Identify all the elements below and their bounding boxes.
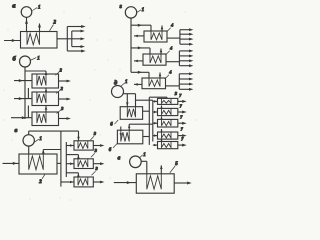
- row3 coil: [37, 112, 46, 123]
- arrow down stage B coil feed: [120, 133, 123, 137]
- label 2 with leader: [42, 175, 45, 179]
- stage B coil feed stub: [120, 127, 122, 131]
- cold water inlet wire: [4, 40, 21, 42]
- arrow up stage1 return: [77, 135, 80, 139]
- svg-text:1: 1: [143, 153, 146, 158]
- stage A shell outlet wire: [143, 110, 150, 112]
- outlet wire to manifold: [166, 85, 180, 87]
- arrow right inlet: [127, 181, 131, 184]
- manifold prong arrow: [179, 73, 189, 75]
- coil outlet wire up: [42, 150, 44, 155]
- riser V2: [65, 142, 67, 177]
- label 1 with leader: [121, 83, 125, 87]
- label 2 row1 leader: [56, 72, 60, 76]
- label 5 with leader: [170, 166, 175, 173]
- top feed wire to consumer 1: [149, 96, 167, 98]
- svg-text:г: г: [120, 3, 123, 10]
- arrow right row2 inlet: [19, 97, 23, 100]
- label 3a leader: [90, 136, 94, 140]
- cold inlet wire: [3, 162, 20, 164]
- return header wire: [29, 130, 79, 132]
- 3c outlet wire arrow: [93, 181, 100, 183]
- manifold prong arrow: [179, 60, 189, 62]
- svg-text:7: 7: [180, 114, 183, 119]
- label 1 with leader: [34, 139, 39, 143]
- inlet wire arrow: [153, 135, 158, 137]
- row3 outlet wire with arrow: [59, 118, 67, 120]
- arrow right row3 inlet: [22, 116, 26, 119]
- heater shell: [142, 78, 166, 89]
- manifold prong arrow: [179, 55, 189, 57]
- consumer heater 7c shell: [158, 119, 178, 127]
- manifold prong arrow: [179, 78, 189, 80]
- feed wire with arrow: [131, 71, 149, 73]
- 3a outlet wire arrow: [93, 145, 100, 147]
- manifold E spine: [71, 31, 73, 47]
- svg-text:2: 2: [53, 21, 57, 26]
- heater 2 coil: [27, 32, 40, 45]
- 3c coil: [78, 177, 88, 185]
- wire pump suction: [26, 17, 28, 31]
- heater 2 shell (first stage): [19, 154, 57, 174]
- svg-text:а: а: [12, 3, 16, 10]
- heater shell: [144, 31, 167, 42]
- outlet wire arrow: [178, 100, 183, 102]
- coil return arrow up: [161, 139, 163, 142]
- svg-text:2: 2: [38, 180, 42, 185]
- row1 coil: [37, 74, 46, 86]
- 3b return wire: [66, 154, 78, 156]
- svg-text:6: 6: [110, 122, 113, 127]
- inlet wire arrow: [153, 122, 158, 124]
- label 1 with leader: [137, 10, 141, 13]
- pump 1 circle: [125, 7, 136, 18]
- arrow up coil outlet: [42, 150, 45, 154]
- svg-text:1: 1: [37, 57, 40, 62]
- outlet wire to manifold: [167, 37, 180, 39]
- supply riser V1: [60, 131, 62, 187]
- 3b outlet wire arrow: [93, 163, 100, 165]
- svg-text:7: 7: [179, 93, 182, 98]
- svg-text:1: 1: [39, 137, 42, 142]
- outlet wire arrow: [174, 182, 187, 184]
- E prong 1 arrow: [72, 30, 81, 32]
- scan speckles: [90, 18, 91, 19]
- consumer heater 3c shell: [74, 177, 93, 187]
- outlet wire arrow: [178, 144, 183, 146]
- row1-row2 connector wire: [27, 88, 29, 99]
- label 1 with leader: [31, 58, 36, 60]
- row2 outlet wire with arrow: [59, 98, 67, 100]
- inlet wire arrow: [153, 111, 158, 113]
- label 1 with leader: [140, 155, 143, 158]
- 3c return wire: [66, 172, 78, 174]
- pump 1 circle: [20, 56, 31, 67]
- svg-text:б: б: [13, 56, 17, 63]
- label 2 with leader: [50, 25, 54, 31]
- pump return riser wire: [28, 131, 30, 135]
- stage1 return drop wire: [78, 131, 80, 141]
- heater 2 coil: [29, 154, 44, 170]
- coil outlet wire up arrow: [160, 165, 162, 174]
- label 6 stage B leader: [113, 144, 117, 148]
- svg-text:3: 3: [94, 148, 98, 153]
- stage B heater 6 shell: [117, 130, 142, 144]
- label with leader: [165, 75, 169, 79]
- row2 inlet wire: [14, 98, 32, 100]
- heater coil: [151, 31, 162, 40]
- mini coil: [162, 108, 172, 114]
- consumer heater 7a shell: [158, 98, 178, 104]
- stage A outlet header wire: [136, 99, 153, 101]
- svg-text:в: в: [15, 127, 18, 134]
- outlet wire arrow: [178, 111, 183, 113]
- manifold spine: [178, 51, 180, 66]
- consumer heater 3a shell: [74, 141, 93, 150]
- label with leader: [166, 51, 170, 55]
- outlet wire arrow: [178, 135, 183, 137]
- supply header wire: [130, 18, 132, 72]
- svg-text:1: 1: [125, 80, 128, 85]
- heater row2 shell: [32, 92, 59, 106]
- label 1 with leader: [33, 8, 38, 11]
- 3a inlet wire arrow: [66, 145, 74, 147]
- left supply header wire: [24, 67, 26, 119]
- coil return arrow up: [161, 129, 163, 132]
- mini coil: [162, 119, 172, 125]
- 3b coil: [78, 159, 88, 167]
- riser V1: [148, 97, 150, 145]
- stage A coil: [127, 107, 135, 118]
- manifold riser: [66, 27, 68, 52]
- label 3c leader: [92, 171, 96, 175]
- svg-text:4: 4: [170, 23, 174, 28]
- heater shell: [143, 54, 166, 65]
- arrow down stage A coil feed: [126, 102, 129, 106]
- svg-text:3: 3: [93, 131, 97, 136]
- consumer heater 3b shell: [74, 159, 93, 169]
- arrow up coil outlet: [38, 23, 41, 27]
- wire coil outlet: [39, 24, 41, 32]
- svg-text:4: 4: [169, 46, 173, 51]
- heater coil: [149, 78, 160, 87]
- row1 outlet wire with arrow: [59, 80, 67, 82]
- stage A heater 6 shell: [120, 107, 142, 120]
- manifold prong arrow: [179, 50, 189, 52]
- mini coil: [162, 142, 172, 148]
- svg-text:7: 7: [181, 127, 184, 132]
- heater 5 shell: [136, 174, 174, 193]
- coil return arrow up: [161, 116, 163, 119]
- return wire arrow left: [134, 60, 143, 62]
- row3 coil feed wire arrow: [45, 106, 47, 113]
- return wire arrow left: [134, 83, 142, 85]
- wire heater to manifold: [57, 38, 72, 40]
- pump 1 (circle): [21, 7, 32, 18]
- outlet wire arrow: [178, 122, 183, 124]
- heater1 coil outlet arrow: [45, 71, 47, 74]
- manifold spine: [178, 74, 180, 90]
- svg-text:7: 7: [181, 136, 184, 141]
- manifold prong arrow: [180, 29, 189, 31]
- consumer heater 7b shell: [158, 108, 178, 115]
- svg-text:3: 3: [174, 91, 178, 96]
- svg-text:2: 2: [60, 86, 64, 91]
- svg-text:2: 2: [59, 68, 63, 73]
- svg-text:7: 7: [180, 103, 183, 108]
- stage B coil outlet wire: [128, 124, 130, 130]
- manifold prong arrow: [179, 83, 189, 85]
- arrow up 3c return: [77, 173, 80, 177]
- riser V2: [152, 100, 154, 141]
- svg-text:5: 5: [175, 162, 178, 167]
- pump 1 circle: [23, 135, 34, 146]
- heater 2 (row1 shell): [32, 74, 59, 88]
- svg-text:4: 4: [168, 70, 172, 75]
- manifold prong arrow: [180, 43, 189, 45]
- mini coil: [162, 132, 172, 138]
- pump discharge wire to stage A: [124, 93, 136, 95]
- cold inlet wire: [114, 182, 137, 184]
- arrow right row1 inlet: [19, 79, 23, 82]
- arrow up 3b return: [77, 155, 80, 159]
- stage A coil feed wire down: [126, 94, 128, 107]
- svg-text:е: е: [118, 154, 121, 161]
- 3b inlet wire arrow: [66, 163, 74, 165]
- label 3b leader: [91, 153, 95, 157]
- heater coil: [150, 54, 161, 63]
- svg-text:1: 1: [142, 8, 145, 13]
- row2-row3 connector wire: [27, 106, 29, 118]
- mini coil: [162, 98, 172, 103]
- pump discharge wire: [28, 146, 30, 154]
- arrow up on suction wire: [25, 20, 28, 24]
- label 6 stage A leader: [114, 120, 118, 124]
- manifold spine: [179, 30, 181, 45]
- row2 coil: [37, 92, 46, 103]
- manifold prong arrow: [180, 38, 189, 40]
- label 2 row2 leader: [56, 90, 60, 94]
- inlet wire arrow: [153, 144, 158, 146]
- coil outlet arrow up: [160, 49, 162, 55]
- stage B coil: [121, 130, 129, 141]
- coil outlet arrow up: [159, 73, 161, 79]
- bottom branch wire with arrow: [67, 50, 81, 52]
- coil return arrow up: [161, 105, 163, 108]
- heater 2 shell outlet wire: [57, 162, 61, 164]
- 3a coil: [78, 141, 88, 149]
- label 3 row3 leader: [57, 110, 61, 114]
- row3 inlet wire: [11, 117, 32, 119]
- heater 2 (shell): [21, 32, 58, 49]
- manifold prong arrow: [180, 33, 189, 35]
- coil outlet arrow up: [161, 26, 163, 32]
- outlet wire to manifold: [166, 61, 179, 63]
- 3c inlet wire arrow: [61, 181, 74, 183]
- row1 inlet wire: [14, 80, 32, 82]
- heater 5 coil: [147, 174, 162, 189]
- consumer heater 7d shell: [158, 132, 178, 139]
- supply wire to risers: [43, 149, 61, 151]
- manifold prong arrow: [179, 65, 189, 67]
- pump discharge wire: [141, 160, 147, 162]
- wire header to heater 1 coil: [25, 70, 46, 72]
- svg-text:1: 1: [38, 6, 41, 11]
- stage A coil outlet wire up: [135, 94, 137, 107]
- row2 coil feed wire arrow: [45, 88, 47, 92]
- feed wire with arrow: [131, 24, 151, 26]
- feed wire with arrow: [131, 47, 150, 49]
- return wire arrow left: [134, 35, 144, 37]
- arrow right cold inlet: [13, 162, 17, 165]
- arrow right inlet: [12, 39, 16, 42]
- svg-text:3: 3: [60, 106, 64, 111]
- svg-text:3: 3: [95, 166, 99, 171]
- top branch wire with arrow: [67, 26, 81, 28]
- pump 1 circle: [130, 156, 142, 168]
- E prong 2 arrow: [72, 38, 81, 40]
- manifold prong arrow: [179, 88, 189, 90]
- stage B shell outlet wire: [143, 136, 150, 138]
- inlet wire arrow: [153, 100, 158, 102]
- label with leader: [167, 28, 171, 32]
- consumer heater 7e shell: [158, 142, 178, 149]
- heater row3 shell: [32, 112, 59, 126]
- E prong 3 arrow: [72, 46, 81, 48]
- svg-text:6: 6: [109, 148, 112, 153]
- pump 1 circle: [112, 86, 124, 98]
